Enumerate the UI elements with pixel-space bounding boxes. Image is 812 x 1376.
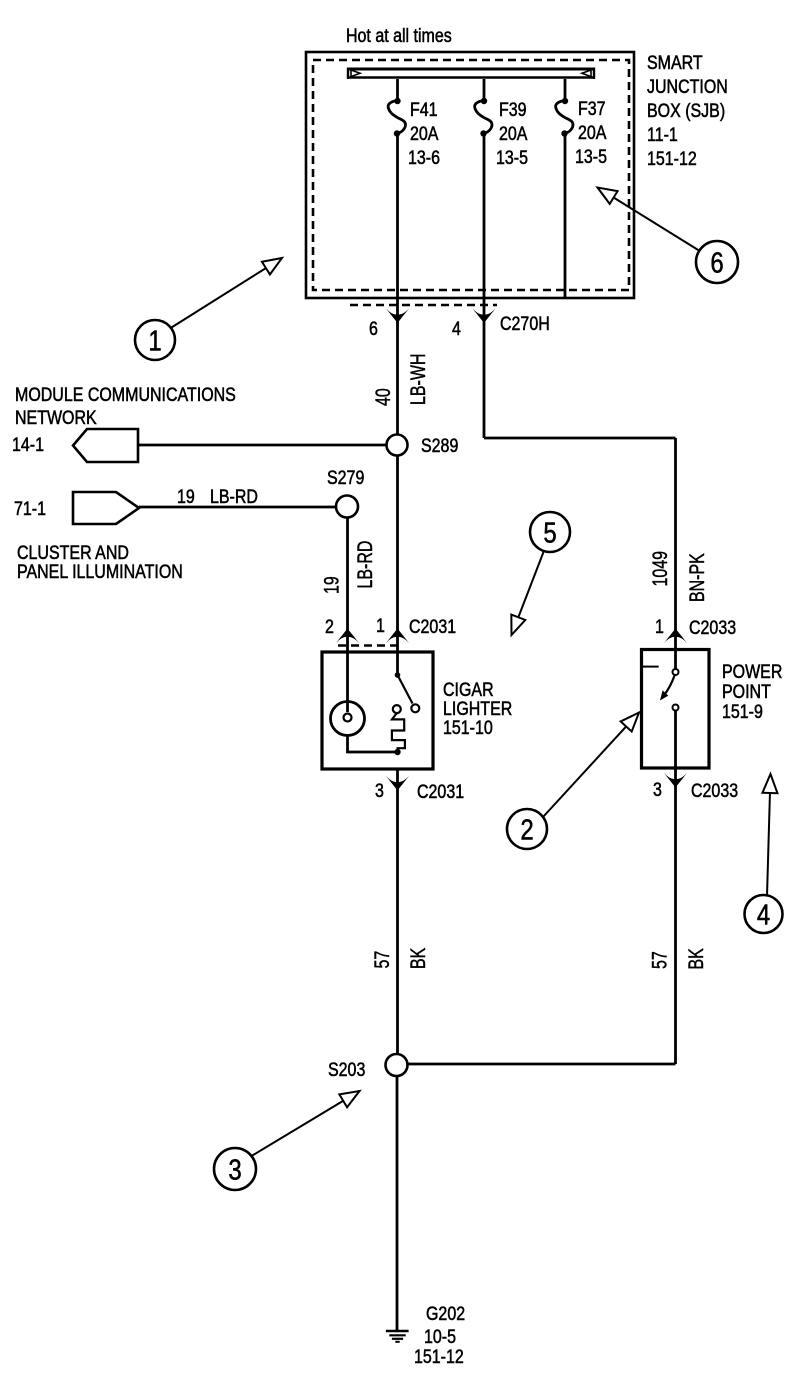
svg-text:57: 57 — [647, 951, 671, 969]
wire circuit 40 LB-WH from C270H pin6 to splice S289 — [371, 354, 430, 406]
svg-text:1: 1 — [655, 616, 664, 638]
callout 4 arrow up — [767, 774, 771, 896]
svg-text:BK: BK — [684, 948, 708, 970]
callout 1 circle — [135, 320, 175, 360]
connector C2033 pin 3 arrow — [664, 773, 687, 788]
ground G202 — [386, 1331, 409, 1342]
connector C270H pin 6 arrow — [386, 309, 409, 324]
callout 2 arrow to power point — [543, 713, 639, 818]
cigar lighter heating element circle — [331, 652, 365, 736]
svg-text:C2031: C2031 — [409, 616, 456, 638]
svg-text:151-9: 151-9 — [722, 701, 763, 723]
svg-text:JUNCTION: JUNCTION — [647, 76, 728, 98]
svg-text:LB-RD: LB-RD — [210, 486, 258, 508]
svg-text:151-12: 151-12 — [414, 1346, 464, 1368]
svg-text:151-10: 151-10 — [443, 717, 493, 739]
splice S203 — [386, 1054, 408, 1076]
svg-text:3: 3 — [375, 780, 384, 802]
svg-text:PANEL ILLUMINATION: PANEL ILLUMINATION — [17, 561, 183, 583]
label CLUSTER AND PANEL ILLUMINATION — [17, 542, 183, 583]
wire fuse F39 output down to corner — [483, 134, 486, 438]
svg-text:3: 3 — [228, 1153, 241, 1186]
svg-text:SMART: SMART — [647, 52, 703, 74]
callout 6 arrow to SJB — [598, 188, 700, 251]
callout 4 circle — [745, 895, 783, 933]
svg-text:BOX (SJB): BOX (SJB) — [647, 100, 725, 122]
label F37 20A 13-5 — [575, 98, 607, 168]
svg-text:151-12: 151-12 — [647, 148, 697, 170]
label SMART JUNCTION BOX (SJB) 11-1 151-12 — [647, 52, 728, 170]
label CIGAR LIGHTER 151-10 — [443, 679, 512, 739]
connector 71-1 cluster and panel illumination — [73, 492, 139, 524]
svg-text:1: 1 — [148, 324, 161, 357]
wire busbar to fuse F41 — [396, 79, 399, 100]
fuse F37 20A — [556, 98, 573, 137]
svg-text:2: 2 — [325, 616, 334, 638]
callout 1 arrow to SJB — [172, 258, 283, 328]
connector C2031 pin 3 arrow — [386, 776, 409, 791]
svg-text:F39: F39 — [499, 99, 527, 121]
svg-text:1049: 1049 — [648, 551, 672, 586]
connector C2031 pin 2 arrow — [336, 629, 359, 644]
svg-text:C270H: C270H — [500, 313, 550, 335]
svg-text:3: 3 — [653, 779, 662, 801]
svg-text:S203: S203 — [328, 1059, 365, 1081]
wire 14-1 to splice S289 — [138, 444, 387, 447]
svg-text:S279: S279 — [327, 467, 364, 489]
svg-text:20A: 20A — [499, 123, 528, 145]
connector 14-1 module communications network — [73, 429, 138, 462]
wire busbar to fuse F37 — [564, 79, 567, 100]
wire splice S203 to power point branch — [408, 1063, 676, 1066]
cigar lighter resistive element meander — [392, 705, 405, 750]
svg-text:20A: 20A — [410, 123, 439, 145]
svg-text:4: 4 — [452, 318, 461, 340]
callout 2 circle — [507, 809, 547, 849]
svg-text:71-1: 71-1 — [14, 498, 46, 520]
svg-text:40: 40 — [371, 388, 395, 406]
svg-text:S289: S289 — [421, 435, 458, 457]
svg-text:BK: BK — [406, 947, 430, 969]
connector C2031 pin 1 arrow — [386, 629, 409, 644]
svg-text:F41: F41 — [410, 99, 438, 121]
wire splice S289 down to C2031 pin 1 — [396, 456, 399, 653]
svg-text:10-5: 10-5 — [424, 1326, 456, 1348]
svg-text:Hot at all times: Hot at all times — [346, 25, 452, 47]
wire busbar to fuse F39 — [483, 79, 486, 100]
svg-text:LB-WH: LB-WH — [406, 354, 430, 405]
svg-text:57: 57 — [370, 951, 394, 969]
connector C270H pin 4 arrow — [473, 309, 496, 324]
svg-text:NETWORK: NETWORK — [15, 407, 97, 429]
splice S289 — [387, 435, 408, 456]
wire element bottom to switch bottom — [348, 736, 401, 756]
label F39 20A 13-5 — [496, 99, 528, 169]
splice S279 — [336, 496, 358, 518]
cigar lighter switch contact and blade — [395, 652, 420, 712]
wire circuit 1049 BN-PK from C270H pin4 to power point — [484, 438, 709, 649]
svg-text:LB-RD: LB-RD — [353, 541, 377, 589]
callout 3 arrow to splice S203 — [252, 1091, 360, 1156]
smart junction box SJB outer box — [306, 52, 634, 298]
svg-text:19: 19 — [177, 486, 195, 508]
wire circuit 57 BK cigar lighter to splice S203 — [370, 769, 430, 1054]
label MODULE COMMUNICATIONS NETWORK 14-1 — [12, 384, 236, 456]
svg-text:2: 2 — [520, 813, 533, 846]
fuse F39 20A — [475, 98, 492, 137]
svg-text:POWER: POWER — [722, 661, 782, 683]
svg-text:19: 19 — [319, 576, 343, 594]
label G202 10-5 151-12 — [414, 1303, 465, 1368]
wire circuit 19 LB-RD from 71-1 to splice S279 — [139, 486, 336, 508]
callout 6 circle — [696, 241, 738, 283]
wire fuse F41 output down to splice S289 — [396, 134, 399, 435]
power point switch — [660, 650, 679, 769]
wire fuse F37 output stub — [564, 134, 567, 298]
svg-text:11-1: 11-1 — [647, 124, 678, 146]
label F41 20A 13-6 — [408, 99, 440, 169]
wire circuit 19 LB-RD splice S279 to C2031 pin 2 — [319, 518, 376, 653]
svg-text:14-1: 14-1 — [12, 434, 44, 456]
svg-text:C2031: C2031 — [417, 781, 464, 803]
connector C270H dashed line — [350, 304, 497, 307]
connector C2031 dashed line — [338, 644, 398, 647]
svg-text:1: 1 — [376, 615, 385, 637]
svg-text:MODULE COMMUNICATIONS: MODULE COMMUNICATIONS — [15, 384, 236, 406]
svg-text:5: 5 — [543, 516, 556, 549]
wire splice S203 to ground G202 — [396, 1076, 399, 1330]
svg-text:4: 4 — [757, 898, 770, 931]
connector C2033 pin 1 arrow — [664, 629, 687, 644]
svg-text:BN-PK: BN-PK — [685, 553, 709, 602]
power point box — [642, 650, 710, 769]
svg-text:6: 6 — [369, 318, 378, 340]
svg-text:13-6: 13-6 — [408, 147, 440, 169]
callout 3 circle — [214, 1148, 256, 1190]
svg-text:13-5: 13-5 — [496, 147, 528, 169]
svg-text:C2033: C2033 — [691, 780, 738, 802]
smart junction box SJB inner dashed box — [313, 60, 629, 290]
bus bar B+ — [348, 68, 594, 80]
callout 5 circle — [530, 512, 570, 552]
svg-text:POINT: POINT — [722, 681, 771, 703]
callout 5 arrow down-left — [512, 552, 544, 635]
svg-text:13-5: 13-5 — [575, 146, 607, 168]
svg-text:G202: G202 — [426, 1303, 465, 1325]
wire circuit 57 BK power point to splice S203 — [647, 768, 707, 1064]
fuse F41 20A — [388, 98, 405, 137]
svg-text:F37: F37 — [578, 98, 606, 120]
power point internal contact tick — [643, 666, 659, 668]
label POWER POINT 151-9 — [722, 661, 782, 723]
cigar lighter box — [322, 652, 433, 769]
svg-text:20A: 20A — [578, 122, 607, 144]
svg-text:C2033: C2033 — [689, 617, 736, 639]
svg-text:6: 6 — [710, 246, 723, 279]
